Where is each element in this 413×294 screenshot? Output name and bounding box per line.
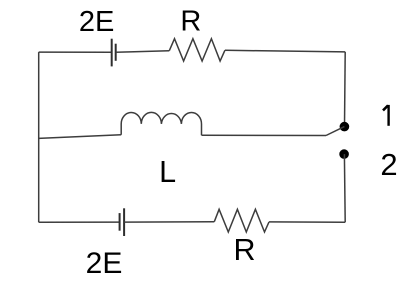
wire resistor to top-right corner bbox=[225, 50, 345, 52]
resistor R bottom zigzag bbox=[214, 209, 269, 232]
wire battery to resistor bbox=[116, 51, 170, 53]
svg-text:2E: 2E bbox=[86, 247, 123, 280]
wire middle branch right segment bbox=[202, 134, 327, 136]
wire bottom resistor to bottom-right corner bbox=[269, 221, 345, 223]
node contact 1 dot bbox=[340, 122, 350, 132]
inductor L coil bbox=[121, 112, 201, 135]
label 1 (drawn, Arial-style foot-less digit) bbox=[383, 105, 389, 126]
battery B1 (2E) long plate bbox=[111, 39, 113, 67]
wire right vertical top to switch contact 1 bbox=[344, 52, 347, 127]
svg-text:R: R bbox=[180, 6, 201, 38]
switch blade wire to contact 1 bbox=[326, 127, 344, 136]
svg-text:L: L bbox=[159, 155, 176, 189]
wire right vertical contact 2 to bottom-right corner bbox=[343, 154, 346, 222]
node contact 2 dot bbox=[339, 149, 349, 159]
svg-text:2: 2 bbox=[380, 147, 397, 182]
battery B2 (2E) short plate bbox=[119, 213, 121, 231]
svg-text:R: R bbox=[233, 233, 255, 267]
wire left vertical side bbox=[38, 52, 40, 222]
wire top-left horizontal bbox=[39, 51, 112, 53]
battery B1 (2E) short plate bbox=[115, 44, 117, 61]
svg-text:2E: 2E bbox=[79, 6, 114, 38]
battery B2 (2E) long plate bbox=[123, 208, 125, 236]
resistor R top zigzag bbox=[169, 39, 225, 61]
wire bottom-left horizontal bbox=[39, 221, 120, 223]
wire battery to bottom resistor bbox=[124, 221, 214, 223]
wire middle branch left segment bbox=[39, 135, 122, 139]
